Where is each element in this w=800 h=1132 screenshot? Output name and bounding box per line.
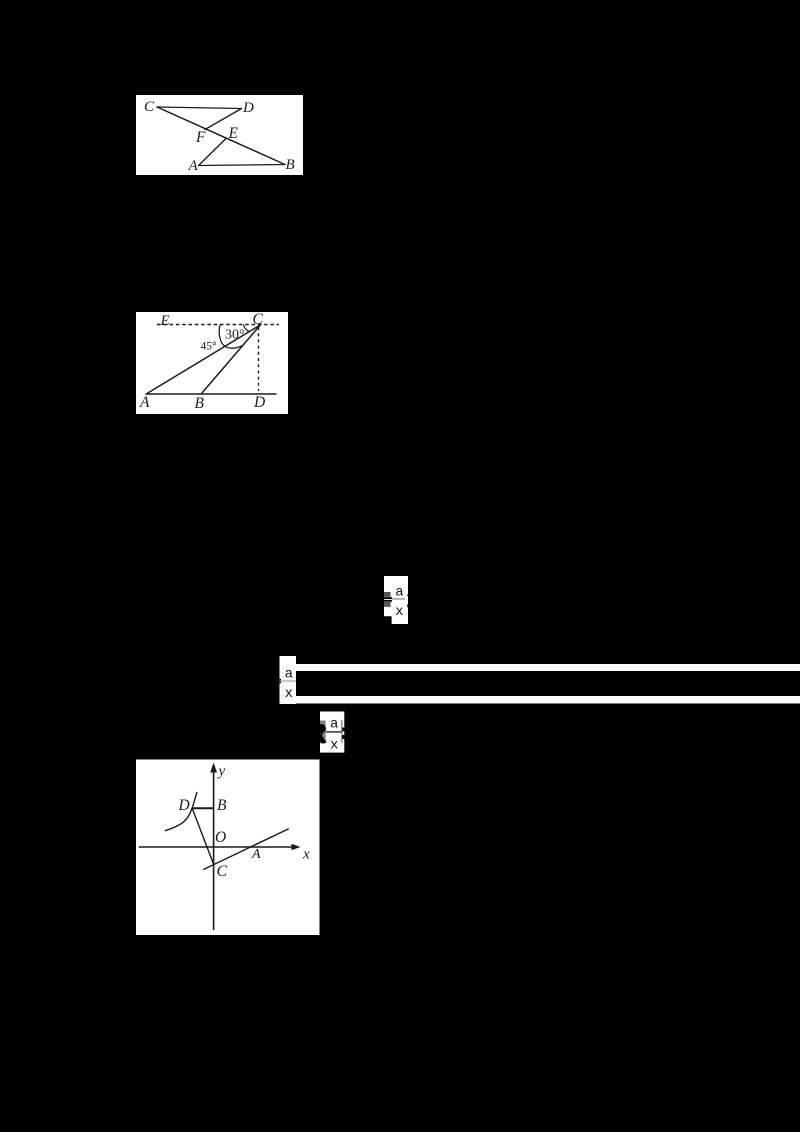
svg-text:O: O	[215, 829, 226, 846]
svg-text:D: D	[253, 394, 265, 411]
svg-text:30°: 30°	[225, 328, 245, 343]
svg-text:B: B	[217, 797, 227, 814]
svg-text:E: E	[228, 125, 239, 142]
svg-text:A: A	[139, 394, 150, 411]
svg-text:A: A	[251, 847, 261, 862]
svg-text:B: B	[286, 157, 295, 173]
svg-text:a: a	[330, 717, 338, 733]
svg-text:C: C	[144, 99, 155, 115]
svg-text:B: B	[195, 395, 205, 412]
svg-text:x: x	[285, 686, 293, 702]
svg-text:E: E	[160, 313, 170, 329]
svg-text:y: y	[217, 764, 226, 780]
svg-text:A: A	[188, 158, 199, 174]
svg-text:x: x	[395, 604, 403, 620]
svg-text:F: F	[195, 129, 206, 146]
svg-text:D: D	[178, 797, 190, 814]
svg-text:a: a	[285, 667, 293, 683]
svg-text:C: C	[253, 311, 264, 328]
svg-text:D: D	[242, 100, 254, 116]
svg-text:x: x	[330, 737, 338, 753]
svg-text:x: x	[302, 847, 310, 863]
svg-text:C: C	[217, 863, 228, 880]
svg-text:a: a	[395, 585, 403, 601]
svg-text:45°: 45°	[201, 341, 218, 353]
